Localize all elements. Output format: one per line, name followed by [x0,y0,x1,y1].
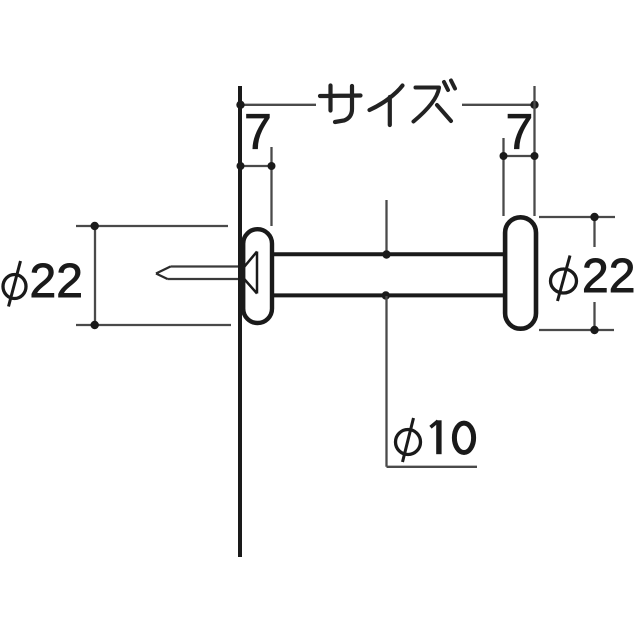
right 7 dimension dots [500,152,508,160]
dia10 upper leader line [385,200,387,253]
right dia22 dimension line upper part [593,217,595,247]
dia10 underline [387,466,478,468]
svg-text:22: 22 [30,255,83,308]
wall line [238,86,242,557]
dia10 phi symbol [396,430,421,455]
dia10 label digit 1 [431,421,439,427]
left dia22 bottom extension line [76,324,231,326]
right 7 extension line left [502,138,504,216]
left dia22 dimension line [94,226,96,325]
dia10 upper dot [382,250,390,258]
right dia22 bottom extension line [539,329,614,331]
svg-text:7: 7 [506,104,534,160]
dia10 lower dot [382,291,390,299]
left 7 dimension line [240,165,272,167]
left dia22 top extension line [76,225,228,227]
right dia22 phi symbol [551,269,577,293]
left dia22 phi symbol [3,275,26,299]
svg-text:22: 22 [582,250,635,303]
size dimension dot left [236,101,244,109]
size dimension line left segment [241,104,316,106]
left 7 dimension dots [237,162,245,170]
pin needle top edge [171,265,240,267]
dia10 lower leader line [385,296,387,467]
right dia22 dots [590,213,598,221]
size dimension dot right [530,101,538,109]
pin cone inside left cap [242,252,257,294]
bar bottom edge [270,293,508,297]
left 7 dimension extension line [270,147,272,226]
right size extension line [533,86,535,216]
size dimension line right segment [462,104,535,106]
right 7 dimension line [504,155,536,157]
left cap [243,229,272,323]
size label katakana sa [320,86,361,123]
size label katakana i [370,86,403,126]
pin needle bottom edge [168,278,240,280]
left dia22 dots [91,222,99,230]
svg-text:7: 7 [244,104,272,160]
pin needle tip [156,267,171,280]
right dia22 dimension line lower part [593,302,595,330]
bar top edge [270,252,508,256]
right cap [505,217,536,328]
dia10 label digit 0 [454,423,473,452]
right dia22 top extension line [539,216,615,218]
size label katakana zu [414,81,456,122]
